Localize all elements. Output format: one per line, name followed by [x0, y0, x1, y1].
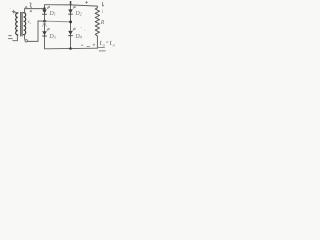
label iL arrow top of load: [103, 2, 104, 6]
wire bottom to mid-rail riser: [28, 21, 39, 41]
svg-text:D3: D3: [48, 34, 55, 40]
ground bar under bottom rail: [97, 46, 105, 48]
node junction mid rail branch2: [69, 21, 72, 24]
wire branch 2 vertical: [70, 5, 72, 49]
svg-text:o: o: [113, 43, 115, 48]
label i above secondary wire: [30, 3, 32, 7]
resistor R load zigzag: [95, 8, 99, 36]
diode D4: [68, 31, 73, 36]
node junction bottom rail branch2: [69, 47, 72, 50]
inductor secondary winding: [24, 13, 26, 35]
svg-text:D4: D4: [74, 34, 81, 40]
transformer core: [20, 12, 22, 36]
svg-text:=: =: [106, 40, 109, 46]
svg-text:R: R: [100, 20, 105, 26]
diode D2: [68, 9, 73, 14]
node junction top rail branch2: [70, 1, 72, 5]
diode D3 triangle outline under node: [42, 22, 46, 27]
svg-text:D2: D2: [74, 11, 81, 17]
node junction secondary-top to branch1: [43, 7, 45, 9]
current arrow curl branch2 top: [73, 6, 75, 9]
wire top rail: [45, 5, 98, 6]
ac source minus: [8, 36, 12, 39]
label plus output top: [85, 1, 88, 4]
svg-text:o: o: [103, 43, 105, 48]
wire mid rail: [38, 20, 47, 22]
wire branch 1 vertical: [44, 5, 46, 49]
node small loop on bottom wire: [25, 40, 27, 42]
wire secondary top lead: [25, 9, 45, 13]
label minus output bottom: [81, 45, 90, 46]
current arrow curl at secondary corner: [25, 6, 27, 8]
node junction mid rail branch1: [43, 20, 46, 23]
label plus secondary: [30, 10, 32, 12]
diode D1: [42, 10, 47, 15]
current arrow curl branch1 top: [47, 6, 49, 9]
label equation iL = iD bottom right: [100, 38, 115, 48]
wire secondary bottom lead: [24, 35, 26, 40]
ac source plus: [12, 10, 15, 13]
wire bottom rail: [45, 47, 98, 50]
inductor primary winding: [16, 13, 18, 35]
wire primary bottom lead: [13, 35, 18, 41]
label small plus near load bottom: [93, 44, 95, 46]
wire primary top lead: [15, 12, 18, 14]
svg-text:D1: D1: [48, 11, 55, 17]
diode D3: [42, 31, 47, 36]
wire load drop and resistor leads: [96, 6, 98, 8]
current arrow curl branch1 bottom: [47, 28, 49, 31]
current arrow curl branch2 bottom: [73, 28, 75, 31]
